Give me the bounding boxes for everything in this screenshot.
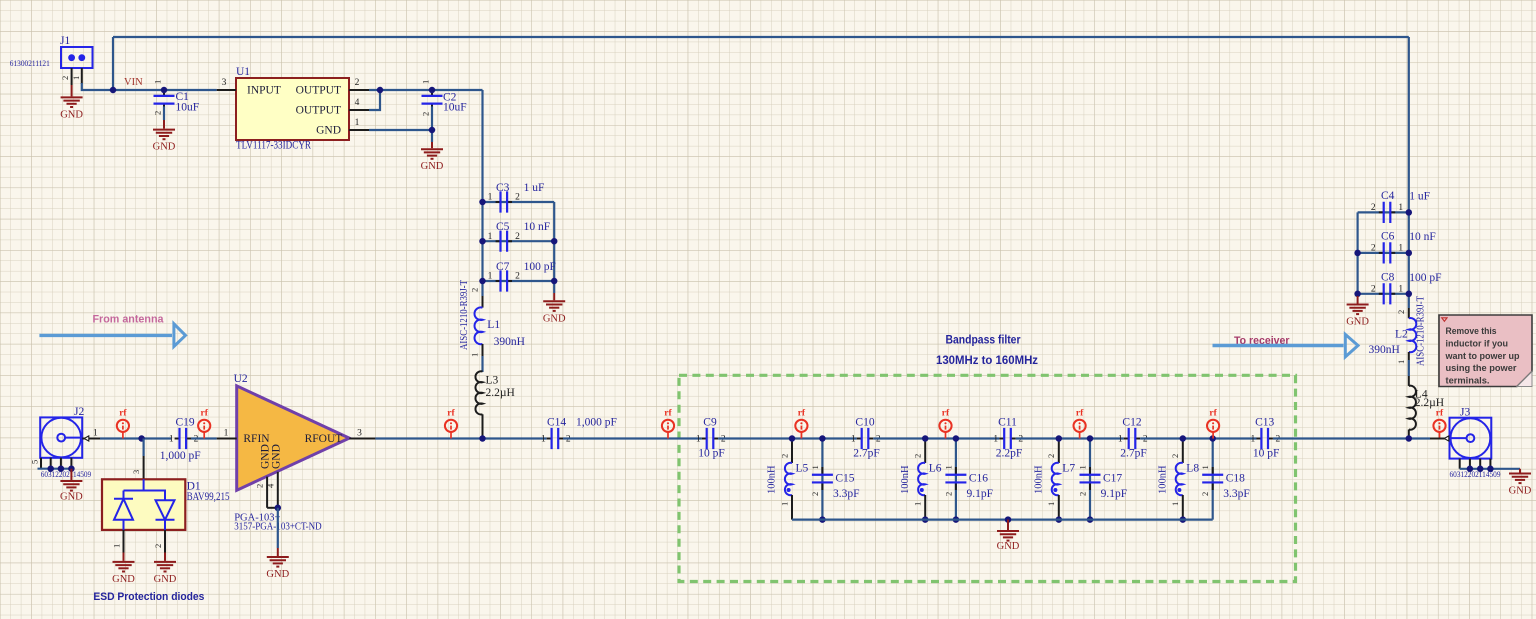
svg-text:2: 2	[1046, 454, 1056, 458]
capacitor C11	[993, 416, 1023, 459]
svg-text:2: 2	[153, 544, 163, 548]
pin 4	[349, 109, 369, 111]
junction L8 top	[1180, 435, 1187, 442]
ground GND bandpass	[997, 520, 1020, 552]
connector J2	[30, 406, 101, 469]
svg-text:rf: rf	[119, 409, 127, 419]
wire C5 row	[483, 240, 555, 242]
svg-text:1: 1	[913, 502, 923, 506]
capacitor C14	[541, 416, 617, 449]
svg-text:9.1pF: 9.1pF	[1101, 488, 1128, 500]
port rf 3	[445, 409, 457, 439]
svg-text:L6: L6	[929, 462, 942, 474]
pin 1	[1430, 438, 1450, 440]
wire C16 branch	[955, 439, 957, 520]
svg-text:1: 1	[153, 80, 163, 84]
port rf at x=1079.6	[1074, 409, 1086, 439]
svg-text:U1: U1	[236, 66, 250, 78]
svg-text:100 pF: 100 pF	[1409, 272, 1441, 284]
connector J3	[1430, 407, 1491, 469]
svg-text:C7: C7	[496, 261, 510, 273]
junction ladder right C7	[551, 278, 558, 285]
annotation To receiver	[1213, 334, 1359, 357]
note pink sticky	[1439, 315, 1532, 387]
junction C15 top	[819, 435, 826, 442]
wire C7 row	[483, 280, 555, 282]
svg-text:2: 2	[779, 454, 789, 458]
svg-text:C12: C12	[1122, 416, 1141, 428]
ground GND under J1	[60, 85, 83, 120]
svg-text:C19: C19	[176, 416, 195, 428]
svg-text:2: 2	[1371, 284, 1376, 294]
svg-text:61300211121: 61300211121	[10, 58, 50, 68]
wire C17 branch	[1089, 439, 1091, 520]
svg-text:1: 1	[943, 465, 953, 469]
wire C19 to U2	[191, 437, 217, 439]
svg-text:1,000 pF: 1,000 pF	[576, 416, 617, 428]
junction J2 bus c	[68, 465, 75, 472]
svg-text:C18: C18	[1226, 472, 1245, 484]
svg-text:1 uF: 1 uF	[524, 182, 545, 194]
junction C16 bottom	[953, 516, 960, 523]
wire J2 ground bus	[38, 468, 72, 470]
junction C16 top	[953, 435, 960, 442]
svg-text:2: 2	[355, 78, 360, 88]
junction L8 bottom	[1180, 516, 1187, 523]
svg-text:RFIN: RFIN	[243, 433, 270, 445]
wire VIN net from J1 to U1 pin 3	[82, 83, 217, 90]
svg-text:1: 1	[1170, 502, 1180, 506]
svg-text:2: 2	[1200, 492, 1210, 496]
svg-text:J3: J3	[1460, 407, 1470, 419]
svg-text:rf: rf	[447, 409, 455, 419]
wire rail C13 to L4 node	[1273, 437, 1430, 439]
junction C1 top	[161, 87, 168, 94]
inductor L3 2.2uH	[475, 371, 514, 438]
wire 3.3V vertical ladder feed	[481, 90, 483, 296]
svg-text:GND: GND	[112, 574, 135, 585]
junction L6 top	[922, 435, 929, 442]
svg-text:rf: rf	[1209, 409, 1217, 419]
svg-text:AISC-1210-R39J-T: AISC-1210-R39J-T	[1416, 296, 1427, 366]
svg-text:C6: C6	[1381, 231, 1395, 243]
port rf 1	[117, 409, 129, 439]
pin 2	[164, 530, 166, 553]
svg-text:2.7pF: 2.7pF	[1120, 447, 1147, 459]
op-amp U1 voltage regulator TLV1117	[217, 66, 369, 152]
svg-text:C14: C14	[547, 416, 566, 428]
svg-text:1: 1	[355, 118, 360, 128]
junction L4 at rail	[1406, 435, 1413, 442]
wire C3 row	[483, 201, 555, 203]
wire top-rail left drop to VIN node	[112, 37, 114, 90]
svg-text:RFOUT: RFOUT	[305, 433, 343, 445]
capacitor C13	[1251, 416, 1281, 459]
svg-text:1: 1	[541, 435, 546, 445]
wire rail C14 to C9	[563, 437, 702, 439]
bottom pins	[41, 458, 71, 469]
svg-text:2.2µH: 2.2µH	[1415, 397, 1444, 409]
junction J2 bus b	[58, 465, 65, 472]
junction right ladder C4	[1406, 209, 1413, 216]
svg-text:1: 1	[224, 429, 229, 439]
svg-text:100nH: 100nH	[1157, 465, 1168, 494]
junction C18 top	[1209, 435, 1216, 442]
junction J2 bus a	[47, 465, 54, 472]
junction L3 at rail	[479, 435, 486, 442]
svg-text:ESD Protection diodes: ESD Protection diodes	[93, 591, 204, 603]
junction L5 top	[789, 435, 796, 442]
pin 2	[266, 477, 268, 508]
junction right ladder C8	[1406, 291, 1413, 298]
wire C1 to ground	[163, 106, 165, 120]
svg-text:2: 2	[470, 288, 480, 292]
junction ladder left C5	[479, 238, 486, 245]
capacitor C16 9.1pF shunt	[943, 465, 993, 500]
svg-text:J2: J2	[74, 406, 84, 418]
junction D1 branch	[138, 435, 145, 442]
ground GND under C1	[153, 120, 176, 153]
wire D1 branch drop	[143, 439, 145, 457]
connector J1	[10, 35, 93, 85]
ground GND under ladder right	[543, 293, 566, 324]
wire right ladder main vertical	[1408, 212, 1410, 308]
svg-text:GND: GND	[266, 569, 289, 580]
junction J3 bus b	[1477, 466, 1484, 473]
svg-text:1: 1	[93, 429, 98, 439]
svg-text:100nH: 100nH	[900, 465, 911, 494]
inductor L8 100nH shunt	[1157, 439, 1199, 520]
svg-text:INPUT: INPUT	[247, 85, 281, 97]
svg-text:2: 2	[1371, 203, 1376, 213]
svg-text:10 nF: 10 nF	[1409, 231, 1436, 243]
capacitor C2	[421, 80, 467, 116]
svg-text:2: 2	[810, 492, 820, 496]
svg-text:2: 2	[515, 232, 520, 242]
svg-text:Remove this: Remove this	[1446, 326, 1497, 336]
svg-text:100 pF: 100 pF	[524, 261, 556, 273]
svg-text:10 nF: 10 nF	[524, 221, 551, 233]
svg-text:BAV99,215: BAV99,215	[187, 491, 230, 503]
junction VIN at top-rail drop	[110, 87, 117, 94]
right diode pointing down	[156, 500, 175, 520]
svg-text:TLV1117-33IDCYR: TLV1117-33IDCYR	[236, 140, 311, 152]
svg-text:1,000 pF: 1,000 pF	[160, 450, 201, 462]
svg-text:C5: C5	[496, 221, 510, 233]
wire U1 pin4 loop	[369, 90, 380, 110]
port rf 2	[198, 409, 210, 439]
wire L2 to L4	[1408, 360, 1410, 376]
svg-text:2.2pF: 2.2pF	[996, 447, 1023, 459]
junction ladder left C7	[479, 278, 486, 285]
svg-text:1: 1	[421, 80, 431, 84]
pin 1	[123, 530, 125, 553]
wire U1 output to C2 and ladder	[369, 89, 483, 91]
junction C15 bottom	[819, 516, 826, 523]
ground GND under C2	[421, 142, 444, 172]
ground GND under D1 pin2	[154, 553, 177, 585]
capacitor C6	[1371, 231, 1436, 264]
svg-text:2: 2	[913, 454, 923, 458]
wire C6 row	[1358, 252, 1409, 254]
svg-text:L5: L5	[796, 462, 809, 474]
wire U2 out to L3 node	[375, 437, 546, 439]
svg-text:2: 2	[153, 111, 163, 115]
junction C17 top	[1087, 435, 1094, 442]
svg-text:rf: rf	[942, 409, 950, 419]
svg-text:1: 1	[488, 232, 493, 242]
pin 1	[349, 129, 369, 131]
svg-text:using the power: using the power	[1446, 363, 1517, 373]
svg-text:4: 4	[355, 98, 360, 108]
svg-text:GND: GND	[1509, 486, 1532, 497]
capacitor C19	[160, 416, 201, 462]
annotation From antenna	[39, 314, 185, 347]
svg-text:3.3pF: 3.3pF	[1223, 488, 1250, 500]
svg-text:GND: GND	[60, 109, 83, 120]
svg-text:10 pF: 10 pF	[1253, 447, 1280, 459]
svg-text:C4: C4	[1381, 190, 1395, 202]
wire U1 GND pin to C2 bottom	[369, 129, 432, 131]
svg-text:C3: C3	[496, 182, 510, 194]
wire top-rail right drop to C4 row	[1408, 37, 1410, 212]
svg-text:2: 2	[943, 492, 953, 496]
wire J2 to C19	[100, 437, 172, 439]
junction J3 bus a	[1467, 466, 1474, 473]
svg-text:L7: L7	[1062, 462, 1075, 474]
junction C2 top	[429, 87, 436, 94]
capacitor C10	[851, 416, 881, 459]
inductor L7 100nH shunt	[1033, 439, 1075, 520]
capacitor C18 3.3pF shunt	[1200, 465, 1250, 500]
svg-text:OUTPUT: OUTPUT	[296, 105, 341, 117]
svg-text:10uF: 10uF	[176, 101, 200, 113]
junction C17 bottom	[1087, 516, 1094, 523]
junction ladder left C3	[479, 199, 486, 206]
svg-text:2: 2	[515, 193, 520, 203]
svg-text:1: 1	[488, 272, 493, 282]
svg-text:390nH: 390nH	[1369, 344, 1400, 356]
svg-text:2: 2	[255, 484, 265, 488]
svg-text:rf: rf	[1076, 409, 1084, 419]
capacitor C3	[488, 182, 545, 213]
svg-text:J1: J1	[60, 35, 70, 47]
svg-text:L3: L3	[486, 375, 499, 387]
pin 1	[217, 438, 237, 440]
svg-text:1: 1	[71, 76, 81, 80]
junction ladder right C5	[551, 238, 558, 245]
wire rail C10 to C11	[873, 437, 999, 439]
svg-text:rf: rf	[798, 409, 806, 419]
svg-text:3: 3	[131, 470, 141, 474]
capacitor C9	[696, 416, 726, 459]
wire bandpass bottom rail	[792, 518, 1213, 520]
svg-text:2: 2	[1077, 492, 1087, 496]
svg-text:1: 1	[851, 435, 856, 445]
svg-text:C8: C8	[1381, 271, 1395, 283]
pin 3	[217, 89, 236, 91]
pin 4	[277, 472, 279, 508]
svg-text:2: 2	[60, 76, 70, 80]
wire rail C9 to C10	[718, 437, 857, 439]
inductor L4 2.2uH	[1409, 376, 1444, 439]
svg-text:2.7pF: 2.7pF	[853, 447, 880, 459]
junction L7 top	[1056, 435, 1063, 442]
svg-text:2: 2	[1371, 244, 1376, 254]
junction pin4 loop	[377, 87, 384, 94]
inductor L6 100nH shunt	[900, 439, 942, 520]
svg-text:rf: rf	[664, 409, 672, 419]
green dashed bandpass group box	[679, 375, 1296, 581]
capacitor C17 9.1pF shunt	[1077, 465, 1127, 500]
svg-text:60312202114509: 60312202114509	[1450, 470, 1501, 479]
svg-text:GND: GND	[543, 313, 566, 324]
svg-text:3: 3	[222, 78, 227, 88]
svg-text:GND: GND	[154, 574, 177, 585]
svg-text:GND: GND	[316, 125, 341, 137]
ground GND under J2	[60, 469, 83, 503]
ground GND under D1 pin1	[112, 553, 135, 585]
svg-text:9.1pF: 9.1pF	[967, 488, 994, 500]
svg-text:130MHz to 160MHz: 130MHz to 160MHz	[936, 353, 1038, 367]
wire right ladder left vertical	[1356, 212, 1358, 296]
svg-text:3.3pF: 3.3pF	[833, 488, 860, 500]
inductor L5 100nH shunt	[767, 439, 809, 520]
svg-text:1 uF: 1 uF	[1409, 191, 1430, 203]
wire U2 gnd drop	[277, 508, 279, 548]
inductor L1 390nH	[459, 280, 525, 357]
svg-text:1: 1	[1398, 284, 1403, 294]
svg-text:1: 1	[1398, 203, 1403, 213]
transistor U2 amplifier PGA-103+	[217, 373, 376, 533]
svg-text:3: 3	[357, 429, 362, 439]
svg-text:2: 2	[515, 272, 520, 282]
wire ladder right vertical	[553, 202, 555, 293]
svg-text:C16: C16	[969, 472, 988, 484]
capacitor C12	[1118, 416, 1148, 459]
svg-text:1: 1	[488, 193, 493, 203]
svg-text:10 pF: 10 pF	[698, 447, 725, 459]
internal wiring	[124, 479, 166, 530]
wire top rail	[113, 36, 1409, 38]
svg-text:GND: GND	[997, 541, 1020, 552]
svg-text:terminals.: terminals.	[1446, 376, 1490, 386]
wire C18 branch	[1212, 439, 1214, 520]
ground GND under J3	[1509, 469, 1532, 497]
ground GND under U2	[266, 548, 289, 580]
capacitor C4	[1371, 190, 1430, 223]
svg-text:L1: L1	[487, 319, 500, 331]
svg-text:2: 2	[1170, 454, 1180, 458]
svg-text:want to power up: want to power up	[1445, 351, 1520, 361]
capacitor C8	[1371, 271, 1442, 304]
port rf at x=668	[662, 409, 674, 439]
pin 1	[82, 438, 100, 440]
svg-text:inductor if you: inductor if you	[1446, 338, 1509, 348]
capacitor C5	[488, 221, 551, 252]
svg-text:1: 1	[112, 544, 122, 548]
svg-text:2: 2	[1396, 310, 1406, 314]
wire J3 ground bus	[1460, 468, 1520, 470]
svg-text:From antenna: From antenna	[93, 314, 165, 326]
svg-text:C17: C17	[1103, 472, 1122, 484]
capacitor C15 3.3pF shunt	[810, 465, 860, 500]
junction L6 bottom	[922, 516, 929, 523]
svg-text:1: 1	[1396, 360, 1406, 364]
junction right ladder C6	[1406, 250, 1413, 257]
svg-text:1: 1	[696, 435, 701, 445]
wire L1 to L3	[481, 356, 483, 372]
wire C8 row	[1358, 293, 1409, 295]
svg-text:1: 1	[993, 435, 998, 445]
svg-text:1: 1	[470, 353, 480, 357]
svg-text:1: 1	[1251, 435, 1256, 445]
svg-text:VIN: VIN	[124, 77, 143, 88]
svg-text:GND: GND	[271, 444, 283, 469]
svg-text:C13: C13	[1255, 416, 1274, 428]
svg-text:GND: GND	[153, 142, 176, 153]
svg-text:GND: GND	[60, 492, 83, 503]
port rf at J3	[1433, 409, 1445, 439]
port rf at x=801.4	[795, 409, 807, 439]
bottom pins	[1460, 459, 1491, 469]
svg-text:C11: C11	[998, 416, 1017, 428]
svg-text:rf: rf	[201, 409, 209, 419]
diode D1 BAV99,215 ESD pair	[102, 456, 230, 553]
svg-text:1: 1	[1200, 465, 1210, 469]
svg-text:1: 1	[1077, 465, 1087, 469]
svg-text:C9: C9	[703, 416, 717, 428]
wire C15 branch	[821, 439, 823, 520]
svg-text:100nH: 100nH	[767, 465, 778, 494]
svg-text:390nH: 390nH	[494, 336, 525, 348]
svg-text:100nH: 100nH	[1033, 465, 1044, 494]
svg-text:C10: C10	[855, 416, 874, 428]
svg-text:U2: U2	[234, 373, 248, 385]
svg-text:1: 1	[1118, 435, 1123, 445]
svg-text:L2: L2	[1395, 328, 1408, 340]
svg-text:1: 1	[810, 465, 820, 469]
pin 2	[349, 89, 369, 91]
svg-text:GND: GND	[1346, 317, 1369, 328]
inductor L2 390nH	[1369, 296, 1427, 366]
svg-text:60312202114509: 60312202114509	[41, 470, 91, 479]
junction right ladder left C6	[1354, 250, 1361, 257]
svg-text:C15: C15	[835, 472, 854, 484]
junction bottom GND tap	[1005, 516, 1012, 523]
wire C4 row	[1358, 211, 1409, 213]
svg-text:1: 1	[1046, 502, 1056, 506]
svg-text:Bandpass filter: Bandpass filter	[946, 333, 1021, 347]
svg-text:AISC-1210-R39J-T: AISC-1210-R39J-T	[459, 280, 470, 350]
junction U2 gnd pins	[275, 505, 282, 512]
svg-text:OUTPUT: OUTPUT	[296, 85, 341, 97]
capacitor C7	[488, 261, 556, 292]
wire C2 bottom to GND node	[431, 106, 433, 142]
svg-text:5: 5	[30, 460, 40, 464]
svg-text:2.2µH: 2.2µH	[486, 387, 515, 399]
capacitor C1	[153, 80, 200, 115]
junction L7 bottom	[1056, 516, 1063, 523]
ground GND under right ladder	[1346, 296, 1369, 328]
svg-text:L8: L8	[1186, 462, 1199, 474]
junction C2 bottom	[429, 127, 436, 134]
svg-text:1: 1	[779, 502, 789, 506]
svg-text:1: 1	[169, 435, 174, 445]
svg-text:GND: GND	[421, 161, 444, 172]
svg-text:rf: rf	[1436, 409, 1444, 419]
svg-text:10uF: 10uF	[443, 102, 467, 114]
